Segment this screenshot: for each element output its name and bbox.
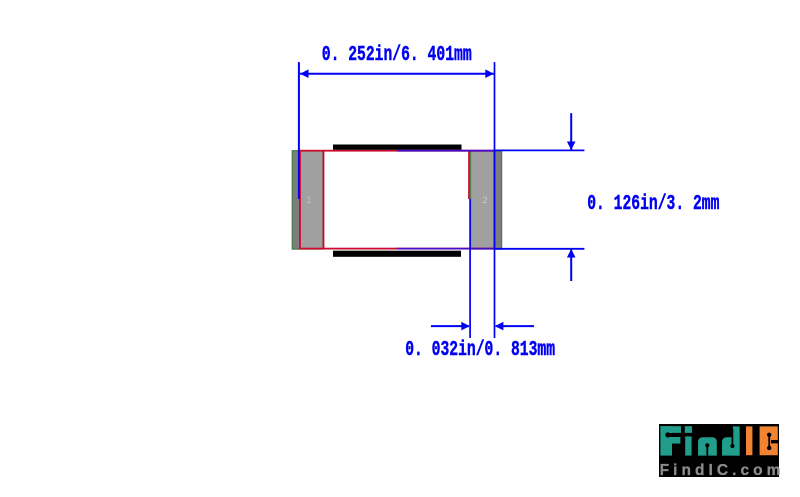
terminal divider line right (red) [468,151,470,199]
purple overlap top edge (blue extension over red body edge) [397,150,495,152]
right dimension upper segment (blue vertical with down arrow) [570,113,572,150]
component body outline (red rectangle) [300,151,494,249]
logo C circuit trace and nodes (black) [768,435,770,448]
terminal divider line left (red) [323,151,325,249]
bottom dimension right segment (blue, arrow pointing left) [496,325,534,327]
logo letter I (orange) [746,426,752,455]
logo letter i (teal) [685,426,692,455]
bottom dimension left segment (blue, arrow pointing right) [431,325,469,327]
pad 2 outer strip (dark gray) [495,150,502,249]
pad 1 green outline [292,151,323,249]
svg-text:0. 126in/3. 2mm: 0. 126in/3. 2mm [587,193,719,216]
logo F circuit groove and node (black) [666,433,681,437]
logo letter C (orange) [760,426,778,455]
logo n circuit node and trace (black) [706,445,708,455]
svg-text:FindIC.com: FindIC.com [660,462,785,479]
svg-text:0. 252in/6. 401mm: 0. 252in/6. 401mm [322,44,472,67]
pad 1 outer strip (dark gray) [292,150,300,249]
svg-text:1: 1 [307,195,312,205]
pad 2 (right land, light gray) [470,150,502,249]
top dimension line (blue) [300,73,494,75]
pad 1 (left land, light gray) [292,150,324,249]
logo d circuit groove and node (black) [732,429,734,446]
right dimension lower segment (blue vertical with up arrow) [570,249,572,281]
extension line left vertical (blue) [298,62,300,199]
bottom solder bar (black) [333,251,461,257]
logo letter d (teal) [722,426,740,455]
extension line right of body, bottom (blue) [495,248,585,250]
extension line right vertical (blue) [494,62,496,338]
purple overlap bottom edge [397,248,495,250]
extension line right of body, top (blue) [495,149,585,151]
pad 2 green outline [471,151,502,249]
top dimension right arrowhead [485,69,494,78]
top dimension left arrowhead [300,69,309,78]
svg-text:2: 2 [482,195,487,206]
extension line pad2-left vertical (blue) [469,199,471,338]
top solder bar (black) [333,145,462,150]
logo letter n (teal) [698,437,717,455]
logo letter F (teal) [660,426,681,455]
svg-text:0. 032in/0. 813mm: 0. 032in/0. 813mm [405,339,555,362]
FindIC logo black background box [659,424,779,477]
